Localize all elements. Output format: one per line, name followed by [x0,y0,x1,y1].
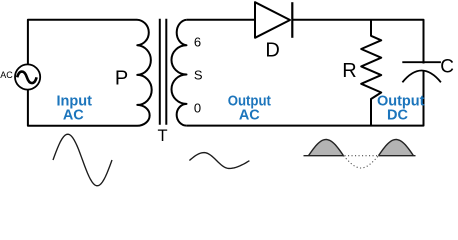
svg-text:T: T [158,127,168,145]
svg-text:AC: AC [0,70,13,80]
svg-text:P: P [115,68,128,90]
svg-text:0: 0 [194,100,201,115]
svg-text:AC: AC [239,108,260,124]
svg-text:DC: DC [387,107,408,123]
svg-text:AC: AC [63,108,84,124]
svg-text:S: S [194,68,203,83]
svg-text:R: R [342,60,356,82]
svg-text:D: D [265,39,279,61]
svg-text:6: 6 [194,35,201,50]
svg-text:C: C [440,57,454,78]
